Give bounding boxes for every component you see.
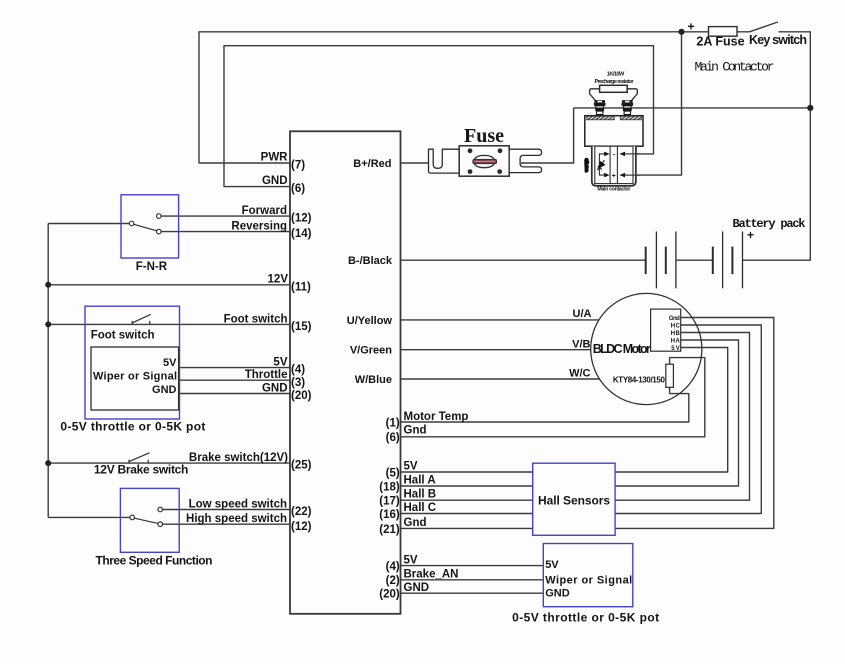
wire Low speed switch xyxy=(163,509,290,511)
foot switch post right xyxy=(149,321,151,325)
svg-text:V/Green: V/Green xyxy=(350,345,392,357)
svg-text:Brake switch(12V): Brake switch(12V) xyxy=(189,452,288,464)
wire hall C loop xyxy=(615,325,761,514)
ANL fuse bolt 1 xyxy=(468,148,473,153)
F-N-R contact common xyxy=(129,221,134,226)
wire High speed switch xyxy=(163,523,290,525)
KTY84 sensor R2 xyxy=(666,364,674,387)
F-N-R contact reverse xyxy=(157,229,162,234)
wire Brake switch xyxy=(48,462,290,464)
svg-text:(2): (2) xyxy=(386,575,400,587)
F-N-R switch box xyxy=(121,195,179,258)
foot switch lever xyxy=(132,314,151,323)
junction dot 12V xyxy=(45,282,51,288)
wire coil plus to key junction xyxy=(621,32,682,175)
wiper signal inner box xyxy=(91,347,179,410)
svg-text:B+/Red: B+/Red xyxy=(353,158,391,170)
wire 12V xyxy=(48,284,290,286)
svg-text:HC: HC xyxy=(671,324,681,330)
TEXT-PINS-LEFT xyxy=(186,152,288,525)
svg-text:+: + xyxy=(612,173,616,180)
wire Hall C to hall box xyxy=(401,513,533,515)
svg-text:V/B: V/B xyxy=(572,339,590,351)
wire GND lower xyxy=(401,592,544,594)
wire left 12V rail xyxy=(47,224,49,518)
svg-text:(20): (20) xyxy=(379,589,400,601)
wire 5V to hall box xyxy=(401,471,533,473)
wiper signal lower box xyxy=(543,544,633,607)
foot switch post left xyxy=(131,321,133,325)
svg-text:1K/10W: 1K/10W xyxy=(607,72,625,78)
wire hall A loop xyxy=(615,340,738,486)
svg-text:HB: HB xyxy=(671,331,681,337)
svg-text:(12): (12) xyxy=(291,213,312,225)
svg-text:W/Blue: W/Blue xyxy=(355,374,392,386)
svg-text:5V: 5V xyxy=(163,357,177,369)
wire Forward xyxy=(161,215,290,217)
key switch lever xyxy=(750,22,778,32)
ANL fuse left terminal xyxy=(429,149,460,173)
wire B+/Red to ANL fuse xyxy=(401,162,429,164)
svg-text:(7): (7) xyxy=(291,160,305,172)
coil plus wire stub xyxy=(621,174,641,176)
wire hall Gnd loop xyxy=(615,318,774,529)
wire Gnd 21 to hall box xyxy=(401,527,533,529)
ANL fuse bolt 3 xyxy=(468,169,473,174)
wire junction to 2A fuse and key switch xyxy=(682,31,750,33)
coil left hook wire xyxy=(599,154,605,175)
svg-text:(20): (20) xyxy=(291,390,312,402)
contactor body xyxy=(585,116,643,147)
svg-text:(6): (6) xyxy=(386,432,400,444)
svg-text:(5): (5) xyxy=(386,467,400,479)
contactor bolt right xyxy=(622,100,634,114)
svg-text:Battery pack: Battery pack xyxy=(733,217,806,231)
WIRES-RIGHT xyxy=(401,318,774,594)
F-N-R lever xyxy=(134,224,157,231)
precharge resistor bridge right xyxy=(627,89,637,101)
svg-text:5V: 5V xyxy=(273,357,287,369)
battery plate short 3 xyxy=(712,247,714,275)
junction dot contactor battery xyxy=(807,105,813,111)
svg-text:12V: 12V xyxy=(268,273,289,285)
svg-text:(6): (6) xyxy=(291,183,305,195)
coil arrow right plus xyxy=(620,173,625,178)
contactor bolt left xyxy=(594,100,606,114)
three speed contact low xyxy=(158,507,163,512)
battery plate short 1 xyxy=(645,247,647,275)
coil diode D1 xyxy=(597,160,604,170)
svg-text:U/A: U/A xyxy=(573,308,592,320)
contactor channel line 1 xyxy=(609,146,611,183)
three speed box xyxy=(120,488,179,552)
wire throttle 5V xyxy=(179,367,290,369)
svg-text:Hall Sensors: Hall Sensors xyxy=(538,493,610,507)
svg-text:(11): (11) xyxy=(291,281,311,293)
brake switch post left xyxy=(128,460,130,464)
svg-text:(15): (15) xyxy=(291,321,312,333)
contactor coil housing inner xyxy=(595,146,633,183)
svg-text:Brake_AN: Brake_AN xyxy=(404,569,459,581)
wire 5V lower xyxy=(401,565,544,567)
F-N-R contact forward xyxy=(157,214,162,219)
wire PWR to key junction xyxy=(199,32,682,163)
coil arrow right minus xyxy=(620,152,625,157)
svg-text:Forward: Forward xyxy=(242,205,287,217)
junction dot foot switch xyxy=(45,321,51,327)
WIRES-LEFT xyxy=(48,216,290,524)
battery plate tall 2 xyxy=(675,232,677,289)
wire B-/Black to battery xyxy=(401,259,646,261)
three speed contact high xyxy=(158,522,163,527)
wire Gnd to KTY top xyxy=(401,358,705,437)
svg-text:HA: HA xyxy=(671,339,681,345)
svg-text:(21): (21) xyxy=(379,524,400,536)
2A fuse F2 xyxy=(709,27,738,37)
svg-text:(25): (25) xyxy=(291,460,312,472)
svg-text:Reversing: Reversing xyxy=(231,220,287,232)
svg-text:(3): (3) xyxy=(291,377,305,389)
junction dot key switch xyxy=(678,29,684,35)
svg-text:(14): (14) xyxy=(291,228,312,240)
svg-text:0-5V throttle or 0-5K pot: 0-5V throttle or 0-5K pot xyxy=(60,420,205,434)
svg-text:+: + xyxy=(687,20,694,34)
svg-text:GND: GND xyxy=(404,582,430,594)
wire ANL fuse to contactor left bolt xyxy=(521,108,574,163)
wire Brake_AN xyxy=(401,579,544,581)
svg-text:(12): (12) xyxy=(291,521,312,533)
motor circle M1 xyxy=(591,293,702,404)
svg-text:BLDC Motor: BLDC Motor xyxy=(593,342,651,356)
battery plate tall 1 xyxy=(655,232,657,289)
svg-text:Throttle: Throttle xyxy=(245,369,288,381)
svg-text:Fuse: Fuse xyxy=(464,125,504,147)
contactor channel line 2 xyxy=(616,146,618,183)
diode marking blob xyxy=(584,158,589,173)
wire Motor Temp to KTY bottom xyxy=(401,387,689,422)
svg-text:Main Contactor: Main Contactor xyxy=(695,60,775,75)
controller U1 box xyxy=(290,131,401,614)
wire U/Yellow to motor xyxy=(401,319,599,321)
junction dot brake switch xyxy=(45,460,51,466)
svg-text:(18): (18) xyxy=(379,481,400,493)
svg-text:5V: 5V xyxy=(404,554,418,566)
motor hall connector xyxy=(651,309,681,351)
contactor hatch strip right xyxy=(620,116,641,120)
three speed lever xyxy=(134,518,158,523)
svg-text:PWR: PWR xyxy=(261,152,289,164)
wire hall B loop xyxy=(615,333,749,501)
TEXT-PINNUMS-LEFT xyxy=(291,160,312,533)
wire three speed common xyxy=(48,516,130,518)
battery plate short 2 xyxy=(665,247,667,275)
coil arrow left plus xyxy=(604,173,609,178)
svg-text:Main contactor: Main contactor xyxy=(597,187,630,193)
wire W/Blue to motor xyxy=(401,378,600,380)
wire Hall A to hall box xyxy=(401,485,533,487)
svg-text:(17): (17) xyxy=(379,496,400,508)
battery plate tall 3 xyxy=(722,232,724,289)
wire hall 5V loop xyxy=(615,348,728,473)
ANL fuse right terminal xyxy=(509,149,541,172)
wire F-N-R common xyxy=(48,223,129,225)
svg-text:Hall B: Hall B xyxy=(404,489,437,501)
contactor hatch strip left xyxy=(587,116,615,120)
svg-text:Hall C: Hall C xyxy=(404,502,437,514)
brake switch post right xyxy=(147,460,149,464)
ANL fuse body xyxy=(459,146,509,176)
svg-text:KTY84-130/150: KTY84-130/150 xyxy=(613,375,666,384)
svg-text:Precharge resistor: Precharge resistor xyxy=(595,79,635,85)
svg-text:Gnd: Gnd xyxy=(404,425,427,437)
svg-text:B-/Black: B-/Black xyxy=(348,255,393,267)
svg-text:Gnd: Gnd xyxy=(404,517,427,529)
svg-text:Three Speed Function: Three Speed Function xyxy=(96,553,213,567)
ANL fuse bolt 4 xyxy=(497,169,502,174)
brake switch lever xyxy=(129,453,150,462)
precharge resistor R1 xyxy=(600,85,628,92)
wire key switch to battery plus xyxy=(743,32,811,260)
svg-text:(4): (4) xyxy=(386,561,400,573)
svg-text:GND: GND xyxy=(152,384,177,396)
svg-text:GND: GND xyxy=(262,382,288,394)
svg-text:Key switch: Key switch xyxy=(749,33,807,47)
wire Reversing xyxy=(161,231,290,233)
WIRES-TOP xyxy=(199,32,810,260)
wire throttle GND xyxy=(179,393,290,395)
wire Hall B to hall box xyxy=(401,499,533,501)
svg-text:0-5V throttle or 0-5K pot: 0-5V throttle or 0-5K pot xyxy=(512,611,659,625)
ANL fuse element bar xyxy=(473,159,497,163)
svg-text:5V: 5V xyxy=(404,460,418,472)
svg-text:Foot switch: Foot switch xyxy=(224,313,288,325)
svg-text:Low speed switch: Low speed switch xyxy=(189,499,287,511)
svg-text:2A Fuse: 2A Fuse xyxy=(696,35,744,49)
svg-text:(16): (16) xyxy=(379,509,400,521)
three speed contact common xyxy=(130,515,135,520)
coil arrow left minus xyxy=(604,152,609,157)
svg-text:Motor Temp: Motor Temp xyxy=(404,411,469,423)
svg-text:Wiper or Signal: Wiper or Signal xyxy=(93,370,177,382)
wire Throttle xyxy=(179,379,290,381)
TEXT-PINNUMS-RIGHT xyxy=(379,417,400,600)
svg-text:GND: GND xyxy=(545,588,570,600)
svg-text:U/Yellow: U/Yellow xyxy=(347,315,393,327)
svg-text:Hall A: Hall A xyxy=(404,474,436,486)
wire battery middle link xyxy=(676,259,713,261)
precharge resistor bridge left xyxy=(590,89,600,101)
svg-text:5V: 5V xyxy=(671,346,680,352)
svg-text:(4): (4) xyxy=(291,364,305,376)
svg-text:Wiper or Signal: Wiper or Signal xyxy=(545,575,632,587)
coil minus wire stub xyxy=(621,153,641,155)
svg-text:Foot switch: Foot switch xyxy=(91,330,155,342)
TEXT-PINS-RIGHT xyxy=(404,411,469,594)
contactor coil housing outer xyxy=(592,146,636,186)
ANL fuse bolt 2 xyxy=(498,148,503,153)
wire GND to contactor coil minus xyxy=(224,46,654,187)
TEXT-INSIDE-RIGHT xyxy=(347,158,393,386)
ANL fuse element oval xyxy=(474,155,495,167)
svg-text:GND: GND xyxy=(262,175,288,187)
svg-text:(22): (22) xyxy=(291,506,312,518)
wire Foot switch xyxy=(48,323,290,325)
svg-text:F-N-R: F-N-R xyxy=(136,261,168,273)
wire contactor terminals to battery junction xyxy=(574,107,811,109)
svg-text:12V Brake switch: 12V Brake switch xyxy=(94,462,188,476)
foot switch box xyxy=(85,306,180,419)
hall sensors box xyxy=(533,463,615,535)
svg-text:5V: 5V xyxy=(545,559,559,571)
svg-text:W/C: W/C xyxy=(569,368,590,380)
svg-text:High speed switch: High speed switch xyxy=(186,513,287,525)
svg-text:(1): (1) xyxy=(386,417,400,429)
svg-text:Gnd: Gnd xyxy=(669,316,680,322)
wire V/Green to motor xyxy=(401,349,591,351)
battery plate short 4 xyxy=(731,247,733,275)
battery plate tall 4 xyxy=(742,232,744,289)
